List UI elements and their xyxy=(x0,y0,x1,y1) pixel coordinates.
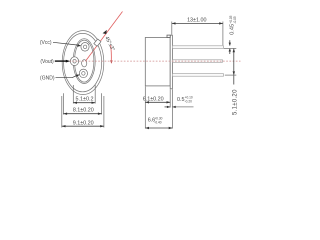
pin Vcc (top) outer xyxy=(81,43,89,52)
svg-text:-0.20: -0.20 xyxy=(185,99,192,103)
extension lines below front view xyxy=(62,85,104,128)
can outer ellipse (8.1) xyxy=(64,33,102,91)
dimension 6.6 (total height) xyxy=(145,127,172,129)
arc arrowhead on centerline (red) xyxy=(110,60,113,63)
pin Vcc (top) inner xyxy=(83,45,86,49)
dimension 0.45 (pin dia) arrows xyxy=(229,40,231,45)
dimension 5.1 vertical (pin spacing) xyxy=(233,49,235,85)
centerline (red dashed horizontal axis) xyxy=(63,60,241,62)
leader Vout (over centerline) xyxy=(55,60,67,62)
dimension 8.1+/-0.20 (front) xyxy=(63,113,101,115)
svg-text:-0.05: -0.05 xyxy=(233,16,237,23)
svg-text:9.1±0.20: 9.1±0.20 xyxy=(73,120,94,126)
center boss ellipse xyxy=(82,60,87,67)
dimension 0.5 (flange thickness) xyxy=(165,106,171,108)
leader Vcc xyxy=(53,42,78,45)
svg-text:8.1±0.20: 8.1±0.20 xyxy=(73,108,94,114)
index tab on flange (45 deg) xyxy=(94,39,101,46)
svg-text:0.45: 0.45 xyxy=(229,24,235,35)
side view flange plate xyxy=(170,35,172,89)
svg-text:45°±3°: 45°±3° xyxy=(103,35,115,52)
pin bottom (side view) xyxy=(172,74,223,77)
dimension 6.1+/-0.20 (body length) xyxy=(145,101,170,103)
leader GND xyxy=(56,76,77,78)
svg-text:(GND): (GND) xyxy=(40,76,55,82)
pin GND (bottom) outer xyxy=(79,69,87,78)
svg-text:-0.40: -0.40 xyxy=(154,120,161,124)
label 0.45 tol (rotated) xyxy=(229,15,237,34)
svg-text:(Vcc): (Vcc) xyxy=(40,40,52,46)
svg-text:(Vout): (Vout) xyxy=(40,59,54,65)
svg-text:0.5: 0.5 xyxy=(177,97,185,103)
side view index tab xyxy=(167,35,170,37)
window ring outer ellipse (5.1) xyxy=(73,39,95,84)
svg-text:13±1.00: 13±1.00 xyxy=(187,18,206,24)
flange outer ellipse (9.1) xyxy=(62,31,104,95)
arc arrowhead on angle line (black) xyxy=(103,30,107,34)
pin Vout (left) outer xyxy=(70,57,78,66)
angular dimension arc (red) xyxy=(110,45,113,61)
pin Vout (left) inner xyxy=(73,59,76,63)
svg-text:6.1±0.20: 6.1±0.20 xyxy=(143,97,164,103)
svg-text:5.1±0.2: 5.1±0.2 xyxy=(76,96,94,102)
pin top (side view) xyxy=(172,46,223,49)
pin edge extension line xyxy=(224,48,237,50)
pin middle (side view) xyxy=(172,60,222,63)
svg-text:5.1±0.20: 5.1±0.20 xyxy=(233,89,239,115)
pin GND (bottom) inner xyxy=(82,72,85,76)
window ring inner ellipse xyxy=(75,40,94,82)
label 5.1+/-0.20 (rotated) xyxy=(233,89,239,115)
angle reference line 45 deg (red) xyxy=(86,12,123,62)
dimension 13+/-1.00 extension lines xyxy=(171,22,173,35)
dimension 5.1+/-0.2 (front) xyxy=(73,102,95,104)
extension lines below side view xyxy=(145,86,172,128)
side view can body xyxy=(145,38,170,86)
dimension 13+/-1.00 xyxy=(172,22,223,24)
dimension 9.1+/-0.20 (front) xyxy=(62,125,104,127)
